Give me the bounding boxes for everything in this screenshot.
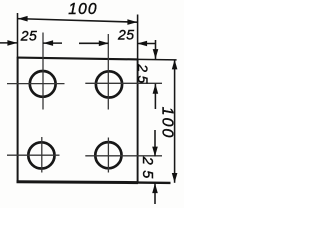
plate left edge	[17, 57, 19, 183]
center line vertical of C4	[107, 138, 109, 173]
hole C1 top-left	[30, 71, 56, 97]
dim line 100 right	[174, 60, 176, 183]
hole C4 bottom-right	[95, 142, 121, 168]
dim line 25 right-top: outside tails	[154, 40, 156, 109]
bottom edge extension line	[138, 181, 171, 184]
svg-text:100: 100	[68, 1, 97, 18]
plate right edge	[137, 59, 139, 183]
arrowhead 25-bottomright up (tip at bottom edge)	[152, 183, 158, 193]
extension line left edge above plate	[17, 13, 19, 58]
svg-text:100: 100	[158, 107, 175, 140]
svg-text:25: 25	[135, 63, 151, 87]
hole C3 bottom-left	[28, 142, 54, 168]
arrowhead 25-topright right (points left at x=137.6)	[137, 41, 147, 47]
arrowhead 25-bottomright down (tip at row2 centerline)	[152, 147, 158, 157]
center line vertical of C3	[41, 137, 43, 173]
dim line 25 top-left: outside tails	[0, 42, 62, 44]
arrowhead 25-right-top down (tip at top edge)	[153, 49, 159, 59]
arrowhead 100-right up (tip at top edge)	[172, 60, 178, 70]
arrowhead 25-topright left (points right at x=108.3)	[99, 41, 109, 47]
center line horizontal row1 left	[7, 83, 65, 85]
svg-text:25: 25	[117, 27, 135, 43]
plate top edge	[17, 58, 138, 60]
hole C2 top-right	[96, 71, 122, 97]
svg-text:25: 25	[20, 27, 38, 43]
dim line 25 bottom-right: outside tails	[154, 130, 156, 204]
arrowhead 100-top left	[18, 16, 28, 22]
svg-text:25: 25	[139, 156, 155, 184]
center line horizontal row1 right (extension to dims)	[85, 82, 162, 84]
extension line right edge above plate	[137, 15, 139, 60]
dimension line 100 top	[18, 19, 138, 23]
arrowhead 25-topleft outer (points right at x=17.5)	[7, 40, 17, 46]
center line horizontal row2 left	[7, 154, 60, 156]
arrowhead 100-top right	[127, 19, 137, 25]
arrowhead 25-topleft inner (points left at x=43)	[43, 40, 53, 46]
arrowhead 25-right-top up (tip at row1 centerline)	[153, 84, 159, 94]
dim line 25 top-right: outside tails	[79, 42, 156, 44]
plate bottom edge	[17, 180, 139, 184]
center line vertical of C1	[42, 33, 44, 110]
center line vertical of C2	[107, 34, 109, 110]
arrowhead 100-right down (tip at bottom edge)	[172, 173, 178, 183]
center line horizontal row2 right (extension to dims)	[85, 155, 162, 157]
top edge extension line (to right dims)	[138, 58, 177, 61]
